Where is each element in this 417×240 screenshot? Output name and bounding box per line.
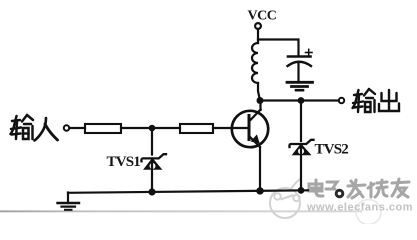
wire input to R1 xyxy=(70,127,85,129)
wire TVS1 bottom xyxy=(151,161,153,192)
wire inductor to collector node xyxy=(258,83,260,101)
友 xyxy=(392,179,409,197)
wire VCC down xyxy=(257,29,259,43)
wire R1 to R2 xyxy=(121,127,180,129)
TVS1 diode xyxy=(141,154,166,169)
input terminal xyxy=(64,125,69,130)
node collector junction xyxy=(258,98,263,103)
TVS2 diode xyxy=(289,140,313,155)
node emitter/ground bus xyxy=(257,188,262,193)
wire TVS2 top xyxy=(300,101,302,142)
label 输出 (output) xyxy=(353,89,400,112)
ground symbol left xyxy=(58,193,80,210)
wire R2 to base xyxy=(213,127,248,129)
入 char xyxy=(35,118,58,141)
wire collector up xyxy=(259,101,261,111)
node TVS1/ground bus xyxy=(150,190,155,195)
resistor R2 xyxy=(180,124,213,133)
plus sign xyxy=(306,49,313,55)
wire output line xyxy=(260,99,339,101)
svg-text:www.elecfans.com: www.elecfans.com xyxy=(306,202,413,214)
watermark dark ring (dot of 子) xyxy=(336,190,343,197)
ground under capacitor xyxy=(287,82,313,90)
watermark text 电子发烧友 xyxy=(309,179,409,198)
capacitor C1 xyxy=(288,49,313,81)
watermark faint circle right xyxy=(356,199,381,224)
svg-text:VCC: VCC xyxy=(248,9,277,24)
output terminal xyxy=(339,98,344,103)
node TVS2/ground bus xyxy=(299,188,304,193)
ground bus wire bottom xyxy=(68,190,308,193)
inductor L1 xyxy=(252,43,258,83)
wire TVS2 bottom xyxy=(300,146,302,190)
label 输入 (input) xyxy=(11,115,58,141)
wire emitter down xyxy=(259,147,261,191)
resistor R1 xyxy=(85,124,121,133)
VCC terminal xyxy=(255,23,261,29)
发 xyxy=(348,180,365,198)
出 char xyxy=(379,90,399,111)
node TVS2/output line xyxy=(299,98,304,103)
transistor Q1 xyxy=(232,110,268,148)
node junction TVS1/input line xyxy=(150,126,154,130)
输 char xyxy=(11,115,34,139)
wire TVS1 top xyxy=(151,128,153,155)
watermark logo circle xyxy=(270,175,301,219)
svg-text:TVS2: TVS2 xyxy=(315,142,349,158)
烧 xyxy=(368,180,387,197)
输 char xyxy=(353,89,376,112)
电 xyxy=(309,180,323,196)
wire branch to capacitor xyxy=(258,40,299,57)
svg-text:TVS1: TVS1 xyxy=(107,154,141,170)
子 (partially covered by dark ring) xyxy=(326,182,337,189)
